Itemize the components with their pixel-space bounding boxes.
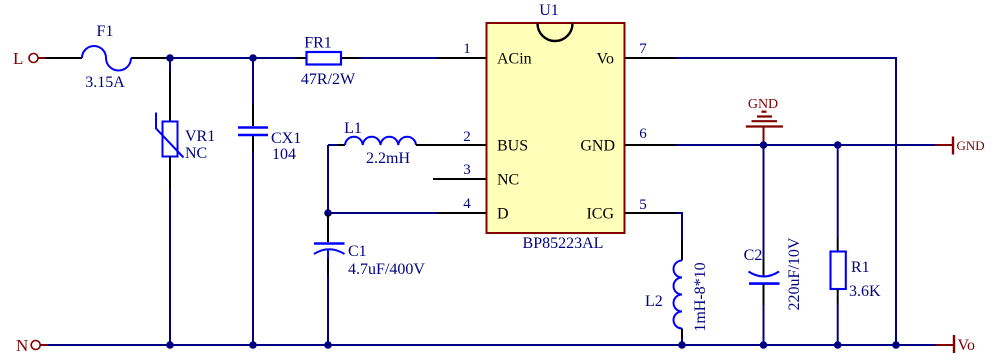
svg-text:GND: GND	[957, 138, 985, 153]
pin 2 lead	[416, 144, 487, 146]
svg-text:Vo: Vo	[597, 51, 615, 68]
svg-text:N: N	[16, 336, 28, 355]
IC U1	[487, 2, 625, 252]
wire	[360, 57, 437, 59]
junction	[249, 341, 257, 349]
svg-text:ACin: ACin	[497, 51, 532, 68]
wire node to pin 4	[328, 212, 437, 214]
svg-text:FR1: FR1	[304, 35, 332, 52]
pin 4 lead	[437, 212, 487, 214]
junction node D	[324, 209, 332, 217]
wire C1 to rail	[327, 275, 329, 345]
pin 1 lead	[437, 57, 487, 59]
fuse F1	[82, 23, 131, 91]
svg-text:1mH-8*10: 1mH-8*10	[692, 262, 709, 331]
pin 7 lead	[625, 57, 676, 59]
svg-text:47R/2W: 47R/2W	[301, 71, 356, 88]
svg-text:C1: C1	[348, 243, 367, 260]
svg-text:NC: NC	[185, 145, 207, 162]
wire CX1 branch top	[252, 58, 254, 104]
wire VR1 branch bottom	[169, 190, 171, 345]
wire	[131, 57, 170, 59]
svg-text:4.7uF/400V: 4.7uF/400V	[348, 261, 425, 278]
svg-text:L2: L2	[645, 293, 663, 310]
svg-text:3: 3	[463, 162, 471, 178]
svg-text:6: 6	[639, 126, 647, 142]
svg-text:220uF/10V: 220uF/10V	[786, 237, 803, 310]
wire	[341, 57, 360, 59]
junction	[834, 141, 842, 149]
svg-text:BP85223AL: BP85223AL	[523, 235, 604, 252]
svg-text:L1: L1	[344, 120, 362, 137]
wire C2 branch	[763, 145, 765, 259]
wire VR1 branch top	[169, 58, 171, 71]
svg-text:C2: C2	[744, 247, 763, 264]
svg-text:3.15A: 3.15A	[85, 74, 125, 91]
wire pin5 to L2	[676, 213, 682, 240]
wire	[253, 57, 295, 59]
svg-text:7: 7	[639, 41, 647, 57]
wire	[170, 57, 253, 59]
wire Vo net	[676, 58, 896, 345]
inductor L2	[645, 240, 709, 338]
wire L2 to rail	[681, 338, 683, 345]
wire L1 to node	[327, 145, 329, 213]
terminal L	[13, 49, 45, 68]
svg-text:F1: F1	[97, 23, 114, 40]
svg-text:2: 2	[463, 129, 471, 145]
svg-text:4: 4	[463, 196, 471, 212]
svg-text:GND: GND	[748, 97, 778, 112]
junction	[760, 141, 768, 149]
svg-text:NC: NC	[497, 172, 519, 189]
svg-text:R1: R1	[851, 259, 870, 276]
svg-text:2.2mH: 2.2mH	[366, 150, 410, 167]
junction	[166, 54, 174, 62]
svg-text:Vo: Vo	[958, 337, 976, 354]
wire CX1 branch bottom	[252, 153, 254, 345]
svg-text:VR1: VR1	[185, 128, 215, 145]
junction	[760, 341, 768, 349]
capacitor C1	[314, 213, 425, 278]
junction	[249, 54, 257, 62]
pin 6 lead	[625, 144, 676, 146]
junction	[166, 341, 174, 349]
resistor FR1	[301, 35, 356, 89]
wire R1 branch	[837, 145, 839, 238]
svg-text:U1: U1	[539, 2, 559, 19]
svg-text:L: L	[13, 49, 23, 68]
svg-text:D: D	[497, 206, 509, 223]
wire	[45, 57, 82, 59]
wire C2 to rail	[763, 305, 765, 345]
svg-text:5: 5	[639, 197, 647, 213]
wire	[295, 57, 306, 59]
svg-text:ICG: ICG	[586, 206, 614, 223]
wire GND net	[676, 144, 935, 146]
terminal GND right	[935, 137, 985, 155]
svg-text:104: 104	[272, 146, 296, 163]
junction	[834, 341, 842, 349]
capacitor C2	[744, 237, 803, 310]
pin 5 lead	[625, 212, 676, 214]
svg-text:BUS: BUS	[497, 138, 528, 155]
svg-text:CX1: CX1	[271, 130, 301, 147]
svg-text:GND: GND	[580, 138, 615, 155]
pin 3 lead	[433, 178, 487, 180]
power ground GND	[746, 97, 783, 145]
wire N rail	[48, 344, 936, 346]
terminal Vo	[936, 335, 975, 354]
capacitor CX1	[238, 104, 301, 163]
inductor L1	[328, 120, 416, 167]
terminal N	[16, 336, 48, 355]
resistor R1	[831, 238, 882, 303]
varistor VR1	[156, 71, 215, 190]
svg-text:1: 1	[463, 41, 471, 57]
junction	[678, 341, 686, 349]
wire R1 to rail	[837, 303, 839, 345]
junction	[324, 341, 332, 349]
svg-text:3.6K: 3.6K	[849, 283, 881, 300]
junction	[892, 341, 900, 349]
